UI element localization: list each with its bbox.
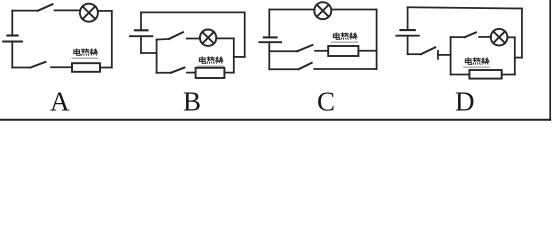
wire: D fork to resistor <box>451 74 470 76</box>
battery B4 long plate <box>396 35 418 37</box>
wire: D left vertical upper <box>407 7 409 29</box>
wire: A contact to resistor <box>51 66 72 68</box>
wire: D lamp to right bar <box>507 36 514 38</box>
wire: A left vertical upper <box>11 11 13 35</box>
switch S5 blade (C middle) <box>297 45 312 51</box>
wire: C resistor to right vertical <box>358 50 376 52</box>
switch S2 blade (A bottom) <box>31 62 46 68</box>
bottom separator line <box>0 119 550 121</box>
wire: B lamp to right bar <box>216 37 234 39</box>
wire: D outer right vertical <box>521 9 523 58</box>
resistor R4 heater (D) <box>469 70 501 79</box>
wire: D right junction bar vertical <box>514 37 516 74</box>
battery B3 long plate (bottom) <box>259 41 281 43</box>
switch S4 blade (B lower) <box>171 68 185 73</box>
wire: B left vertical lower <box>140 37 142 53</box>
resistor R1 heater (A) <box>72 63 100 72</box>
svg-text:C: C <box>317 87 335 117</box>
label 电热丝 (A) <box>72 49 98 58</box>
switch S8 blade (D lamp branch) <box>465 32 476 37</box>
wire: C left vertical lower <box>268 43 270 69</box>
wire: D top horizontal <box>408 7 522 8</box>
wire: B battery to fork <box>141 52 157 54</box>
switch S1 blade (A top) <box>38 4 53 11</box>
wire: C middle contact to resistor <box>315 50 328 52</box>
wire: C lamp to top-right <box>331 9 376 11</box>
wire: A left vertical lower <box>11 42 13 67</box>
battery B3 short plate (top) <box>264 36 277 38</box>
wire: B junction tap to outer <box>234 56 245 58</box>
lamp L2 (B) <box>200 30 216 46</box>
lamp L4 (D) <box>491 29 508 46</box>
wire: C left vertical upper <box>268 10 270 37</box>
wire: D junction tap to outer <box>515 57 522 59</box>
wire: B right junction bar vertical <box>233 38 235 72</box>
wire: D left vertical lower <box>407 37 409 55</box>
battery B2 long plate <box>130 35 153 37</box>
wire: C bottom-left segment <box>269 68 298 70</box>
wire: A right vertical <box>111 11 113 68</box>
wire: C bottom contact to right <box>314 68 376 70</box>
wire: A lamp to top-right corner <box>98 10 112 12</box>
wire: B outer right vertical <box>244 12 246 57</box>
wire: A resistor right lead <box>100 67 112 69</box>
wire: B top horizontal <box>141 11 245 13</box>
svg-text:B: B <box>183 87 201 117</box>
svg-text:A: A <box>50 87 70 117</box>
wire: D upper branch to switch <box>451 36 465 38</box>
wire: D bottom-left to switch <box>408 53 421 55</box>
wire: A switch contact to lamp <box>55 9 81 11</box>
label 电热丝 (D) <box>464 58 490 67</box>
battery B1 long plate (A) <box>3 41 22 43</box>
wire: B left vertical upper <box>140 12 142 29</box>
wire: B upper contact to lamp <box>187 38 200 40</box>
switch S3 blade (B upper) <box>169 32 183 39</box>
switch S6 blade (C bottom) <box>299 63 312 70</box>
resistor R3 heater (C) <box>328 46 358 56</box>
switch S7 contact post <box>437 51 439 59</box>
wire: C top-left to lamp <box>269 9 314 11</box>
wire: A top-left segment <box>12 10 38 12</box>
lamp L1 (A) <box>80 4 98 22</box>
wire: B fork vertical <box>156 40 158 73</box>
label 电热丝 (B) <box>198 57 224 66</box>
wire: D contact to fork <box>438 54 451 56</box>
wire: D upper contact to lamp <box>479 36 491 38</box>
resistor R2 heater (B) <box>196 68 225 78</box>
battery B4 short plate <box>400 29 414 31</box>
wire: B lower branch to switch <box>157 72 171 74</box>
wire: A bottom-left segment <box>12 67 30 69</box>
wire: B lower contact to resistor <box>187 72 196 74</box>
switch S7 blade (D main) <box>421 47 435 54</box>
battery B1 short plate (A) <box>7 34 17 36</box>
label 电热丝 (C) <box>332 33 358 42</box>
battery B2 short plate <box>135 29 148 31</box>
right border line <box>549 0 551 120</box>
wire: B upper branch to switch <box>157 38 169 41</box>
wire: C middle branch from left <box>269 50 297 52</box>
svg-text:D: D <box>455 87 475 117</box>
wire: D resistor right lead <box>502 74 515 76</box>
wire: D fork vertical <box>450 37 452 74</box>
wire: B resistor to right bar <box>224 72 233 74</box>
lamp L3 (C) <box>314 2 331 19</box>
wire: C right vertical <box>376 10 378 70</box>
